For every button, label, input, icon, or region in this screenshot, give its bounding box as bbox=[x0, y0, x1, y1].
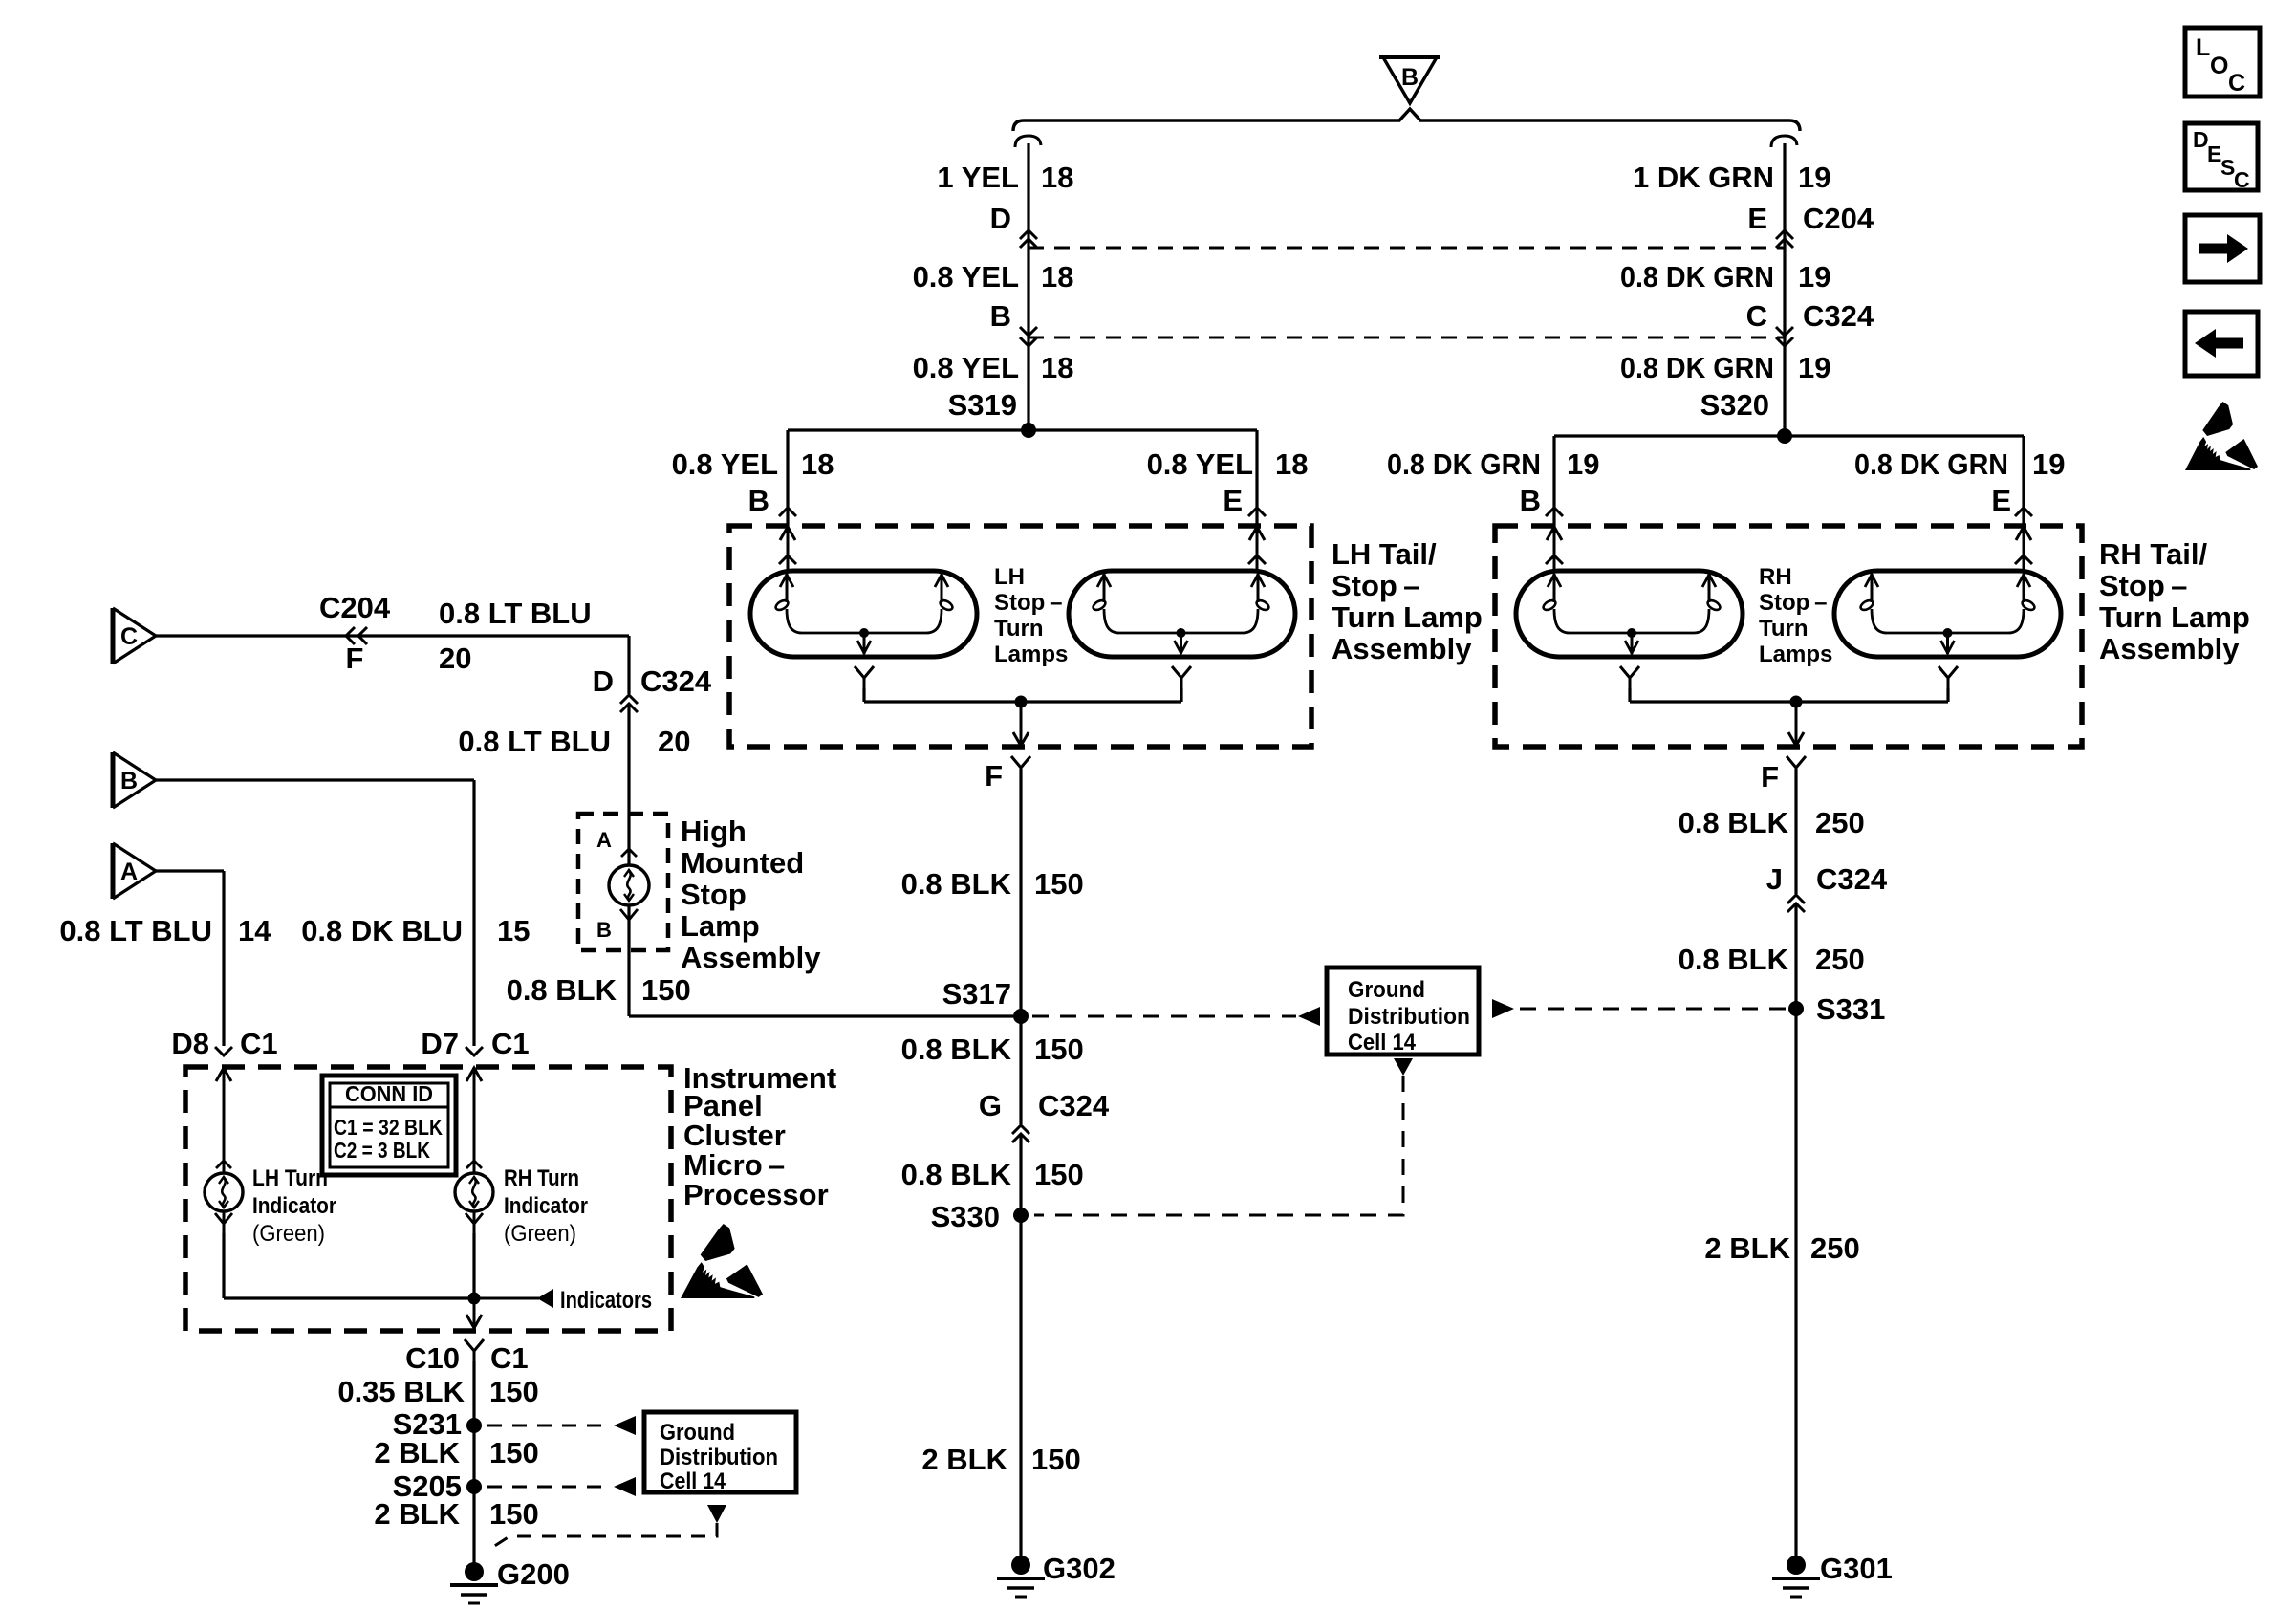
svg-text:150: 150 bbox=[1031, 1443, 1081, 1476]
label 0.8 BLK 150 (F to S317) bbox=[901, 867, 1084, 901]
svg-text:150: 150 bbox=[489, 1375, 539, 1408]
ground G302 bbox=[997, 1556, 1045, 1597]
svg-text:C1: C1 bbox=[240, 1027, 278, 1060]
svg-text:O: O bbox=[2210, 53, 2228, 79]
svg-text:C: C bbox=[1746, 299, 1767, 333]
svg-text:D7: D7 bbox=[421, 1027, 459, 1060]
legend box arrow left bbox=[2185, 312, 2258, 376]
LH tail/stop-turn lamp assembly dashed box bbox=[729, 526, 1311, 747]
junction indicators bus bbox=[468, 1293, 481, 1305]
terminal Y below high-lamp bulb bbox=[620, 909, 638, 930]
connector C324 pin C (right wire) bbox=[1776, 327, 1793, 346]
off-page reference triangle B (feed from turn signal switch) bbox=[1379, 57, 1440, 103]
svg-text:F: F bbox=[346, 642, 364, 675]
label LH Stop-Turn Lamps bbox=[994, 564, 1068, 667]
svg-text:150: 150 bbox=[641, 973, 691, 1007]
svg-text:E: E bbox=[1747, 202, 1767, 235]
svg-text:C1 = 32 BLK: C1 = 32 BLK bbox=[334, 1115, 443, 1140]
label 0.8 BLK 150 (G to S330) bbox=[901, 1158, 1084, 1191]
entry arrow RH pin B bbox=[1546, 526, 1563, 574]
svg-text:S320: S320 bbox=[1700, 388, 1769, 422]
wire branch to RH pin E bbox=[2022, 436, 2025, 528]
lamp LH turn indicator bbox=[205, 1173, 243, 1211]
svg-text:Indicator: Indicator bbox=[504, 1193, 588, 1219]
label splice S231 bbox=[393, 1407, 462, 1441]
wire 1 DK GRN circuit 19 (right feed down to S320) bbox=[1783, 143, 1786, 436]
svg-text:250: 250 bbox=[1815, 806, 1865, 839]
ESD symbol inside instrument panel cluster bbox=[681, 1224, 763, 1298]
svg-text:250: 250 bbox=[1810, 1231, 1860, 1265]
svg-text:E: E bbox=[1991, 484, 2011, 517]
wire 0.8 BLK 150 C324 G to S330 bbox=[1019, 1134, 1022, 1215]
off-page reference triangle A bbox=[113, 843, 156, 899]
svg-text:G302: G302 bbox=[1043, 1552, 1116, 1585]
svg-text:B: B bbox=[748, 484, 769, 517]
label LH pin E bbox=[1223, 484, 1243, 517]
svg-text:19: 19 bbox=[1798, 260, 1830, 294]
svg-text:Cell 14: Cell 14 bbox=[660, 1469, 726, 1494]
label splice S320 bbox=[1700, 388, 1769, 422]
terminal Y below LH lamp1 bbox=[855, 666, 874, 689]
svg-text:2 BLK: 2 BLK bbox=[374, 1436, 460, 1469]
label G302 bbox=[1043, 1552, 1116, 1585]
svg-text:2 BLK: 2 BLK bbox=[374, 1497, 460, 1531]
svg-text:S330: S330 bbox=[931, 1200, 1000, 1233]
svg-text:18: 18 bbox=[1275, 447, 1308, 481]
connector C204 pin F carets (double left chevron) bbox=[346, 627, 367, 644]
svg-text:D: D bbox=[593, 664, 614, 698]
svg-text:(Green): (Green) bbox=[252, 1221, 325, 1247]
terminal caret at LH pin B bbox=[779, 508, 796, 516]
svg-text:0.8 BLK: 0.8 BLK bbox=[901, 1158, 1012, 1191]
wire and arrow to Indicators net bbox=[474, 1289, 553, 1308]
svg-text:150: 150 bbox=[1034, 867, 1084, 901]
lamp RH stop-turn lamp #2 bbox=[1834, 571, 2061, 657]
connector C204 pin E (right wire) bbox=[1776, 230, 1793, 248]
terminal caret at C1 pin D8 bbox=[215, 1047, 232, 1055]
label pin F bbox=[346, 642, 364, 675]
svg-text:0.8 BLK: 0.8 BLK bbox=[901, 867, 1012, 901]
svg-text:C10: C10 bbox=[405, 1341, 460, 1375]
label pin B bbox=[990, 299, 1011, 333]
svg-text:20: 20 bbox=[439, 642, 471, 675]
entry arrow RH pin E bbox=[2015, 526, 2032, 574]
arrowhead at ground distribution (from S231) bbox=[614, 1416, 636, 1435]
ground distribution cell 14 box (lower left) bbox=[644, 1412, 796, 1494]
label 0.8 LT BLU 20 (below C324 D) bbox=[458, 725, 690, 758]
wire LH indicator to indicators bus bbox=[224, 1233, 474, 1298]
svg-text:0.8 YEL: 0.8 YEL bbox=[1147, 447, 1253, 481]
svg-text:Lamp: Lamp bbox=[681, 909, 760, 943]
svg-text:D: D bbox=[990, 202, 1011, 235]
lamp RH stop-turn lamp #1 bbox=[1516, 571, 1743, 657]
label RH pin E bbox=[1991, 484, 2011, 517]
label splice S331 bbox=[1816, 992, 1885, 1026]
svg-text:RH Turn: RH Turn bbox=[504, 1165, 579, 1191]
svg-text:Ground: Ground bbox=[660, 1420, 735, 1446]
svg-text:Turn: Turn bbox=[994, 616, 1044, 642]
svg-text:1 DK GRN: 1 DK GRN bbox=[1633, 161, 1774, 194]
svg-text:150: 150 bbox=[489, 1436, 539, 1469]
terminal Y below RH turn indicator bbox=[466, 1213, 483, 1234]
wire LH ground exit with arrow bbox=[1013, 702, 1029, 746]
wire RH lamp1 to ground bus bbox=[1628, 688, 1631, 702]
svg-text:Turn: Turn bbox=[1759, 616, 1809, 642]
off-page reference triangle C bbox=[113, 608, 156, 664]
label 0.8 YEL 18 (LH pin E branch) bbox=[1147, 447, 1309, 481]
terminal caret above LH turn indicator bbox=[216, 1161, 231, 1168]
terminal Y at LH pin F bbox=[1011, 756, 1030, 779]
dashed reference S231 to ground distribution cell bbox=[487, 1425, 612, 1427]
label pin D / C324 bbox=[593, 664, 712, 698]
brace end hook over left wire bbox=[1015, 136, 1041, 147]
connector C204 interface dashed line bbox=[1029, 247, 1785, 250]
junction RH ground bus bbox=[1790, 696, 1803, 708]
terminal caret above RH turn indicator bbox=[466, 1161, 482, 1168]
wire 2 BLK 150 S231 to S205 bbox=[472, 1425, 475, 1487]
svg-text:C1: C1 bbox=[490, 1341, 529, 1375]
wire LH lamp1 to ground bus bbox=[862, 688, 865, 702]
label 0.35 BLK 150 bbox=[337, 1375, 538, 1408]
svg-text:0.8 BLK: 0.8 BLK bbox=[1679, 806, 1789, 839]
arrowhead at right ground distribution box (right side) bbox=[1492, 999, 1514, 1018]
svg-text:19: 19 bbox=[2032, 447, 2065, 481]
svg-text:CONN ID: CONN ID bbox=[345, 1081, 433, 1106]
label RH pin B bbox=[1520, 484, 1541, 517]
label 0.8 LT BLU (C204 to corner) bbox=[439, 597, 592, 675]
label RH Tail/Stop-Turn Lamp Assembly bbox=[2099, 537, 2250, 665]
terminal caret at RH pin B bbox=[1546, 508, 1563, 516]
svg-text:150: 150 bbox=[489, 1497, 539, 1531]
svg-text:250: 250 bbox=[1815, 943, 1865, 976]
wire S320 branch bus bbox=[1554, 434, 2024, 437]
label splice S205 bbox=[393, 1469, 462, 1503]
svg-text:Panel: Panel bbox=[683, 1089, 763, 1122]
svg-text:Ground: Ground bbox=[1348, 977, 1425, 1003]
instrument panel cluster dashed box bbox=[185, 1067, 671, 1331]
svg-text:2 BLK: 2 BLK bbox=[1704, 1231, 1790, 1265]
svg-text:Stop –: Stop – bbox=[1332, 569, 1419, 602]
label splice S317 bbox=[942, 977, 1011, 1011]
label 0.8 DK BLU 15 bbox=[301, 914, 530, 947]
splice S331 bbox=[1788, 1001, 1804, 1016]
wire RH ground exit with arrow bbox=[1788, 702, 1804, 746]
junction LH ground bus bbox=[1015, 696, 1028, 708]
lamp LH stop-turn lamp #1 bbox=[750, 571, 977, 657]
label high-lamp pin B bbox=[596, 918, 612, 942]
dashed reference S205 to ground distribution cell bbox=[487, 1486, 612, 1489]
svg-text:Lamps: Lamps bbox=[994, 642, 1068, 667]
label 0.8 LT BLU 14 bbox=[59, 914, 271, 947]
svg-text:Turn Lamp: Turn Lamp bbox=[1332, 600, 1483, 634]
ground distribution cell 14 box (right) bbox=[1327, 968, 1479, 1055]
svg-text:Lamps: Lamps bbox=[1759, 642, 1832, 667]
svg-text:19: 19 bbox=[1567, 447, 1599, 481]
wire 0.8 LT BLU 20 vertical to C324 pin D bbox=[627, 636, 630, 694]
label RH pin F bbox=[1761, 760, 1779, 794]
svg-text:B: B bbox=[990, 299, 1011, 333]
off-page reference triangle B (lower left) bbox=[113, 752, 156, 808]
label LH Turn Indicator (Green) bbox=[252, 1165, 336, 1247]
label 0.8 DK GRN 19 (RH pin E branch) bbox=[1854, 447, 2065, 481]
svg-text:S331: S331 bbox=[1816, 992, 1885, 1026]
wire 0.8 BLK 250 from RH pin F to C324 J bbox=[1794, 770, 1797, 894]
wire RH lamp2 to ground bus bbox=[1946, 688, 1949, 702]
brace grouping both feed wires under reference B bbox=[1013, 109, 1800, 131]
terminal caret at C1 pin D7 bbox=[466, 1047, 483, 1055]
svg-text:LH Tail/: LH Tail/ bbox=[1332, 537, 1437, 571]
label 0.8 BLK 150 (S317 to G) bbox=[901, 1033, 1084, 1066]
label pin C / C324 bbox=[1746, 299, 1874, 333]
svg-text:20: 20 bbox=[658, 725, 690, 758]
svg-text:C324: C324 bbox=[1816, 862, 1888, 896]
label 0.8 YEL 18 (lower) bbox=[913, 351, 1074, 384]
splice S231 bbox=[466, 1418, 482, 1433]
svg-text:B: B bbox=[1520, 484, 1541, 517]
high mounted stop lamp dashed box bbox=[578, 814, 668, 950]
lamp RH turn indicator bbox=[455, 1173, 493, 1211]
svg-text:18: 18 bbox=[1041, 351, 1073, 384]
svg-text:S317: S317 bbox=[942, 977, 1011, 1011]
CONN ID table bbox=[322, 1076, 456, 1175]
arrowhead at right ground distribution box (left side) bbox=[1298, 1007, 1320, 1026]
svg-text:Distribution: Distribution bbox=[660, 1445, 778, 1470]
label 2 BLK 150 (to G302) bbox=[921, 1443, 1080, 1476]
svg-text:19: 19 bbox=[1798, 161, 1830, 194]
label G301 bbox=[1820, 1552, 1893, 1585]
label 0.8 DK GRN 19 (lower) bbox=[1620, 351, 1830, 384]
svg-text:B: B bbox=[120, 768, 138, 794]
wire 1 YEL circuit 18 (left feed down to S319) bbox=[1027, 143, 1029, 430]
svg-text:0.8 DK GRN: 0.8 DK GRN bbox=[1620, 351, 1774, 384]
arrowhead below lower ground distribution box bbox=[707, 1505, 726, 1523]
terminal Y below LH lamp2 bbox=[1172, 666, 1191, 689]
connector C204 pin D (left wire, male/female carets) bbox=[1020, 230, 1037, 248]
lamp high mounted stop lamp bulb bbox=[609, 865, 649, 905]
label Instrument Panel Cluster Micro-Processor bbox=[683, 1061, 836, 1211]
dashed reference box to S330 bbox=[1034, 1076, 1403, 1215]
label 0.8 YEL 18 (upper) bbox=[913, 260, 1074, 294]
svg-text:C204: C204 bbox=[1803, 202, 1874, 235]
splice S320 bbox=[1777, 428, 1792, 444]
svg-text:150: 150 bbox=[1034, 1158, 1084, 1191]
wire S319 branch bus bbox=[788, 428, 1257, 431]
entry arrow IP pin D8 bbox=[216, 1067, 231, 1233]
wire branch to LH pin E bbox=[1255, 430, 1258, 528]
svg-text:C324: C324 bbox=[1038, 1089, 1110, 1122]
svg-text:0.8 BLK: 0.8 BLK bbox=[901, 1033, 1012, 1066]
lamp LH stop-turn lamp #2 bbox=[1069, 571, 1295, 657]
label 2 BLK 150 (S205-G200) bbox=[374, 1497, 538, 1531]
svg-text:Assembly: Assembly bbox=[2099, 632, 2240, 665]
label High Mounted Stop Lamp Assembly bbox=[681, 815, 821, 974]
svg-text:Processor: Processor bbox=[683, 1178, 829, 1211]
label G200 bbox=[497, 1557, 570, 1591]
splice S319 bbox=[1021, 423, 1036, 438]
wire RH indicator to indicators bus bbox=[472, 1233, 475, 1298]
label pin D7 / C1 bbox=[421, 1027, 529, 1060]
svg-text:C: C bbox=[2228, 70, 2245, 97]
svg-text:B: B bbox=[596, 918, 612, 942]
svg-text:D8: D8 bbox=[171, 1027, 209, 1060]
svg-text:Stop –: Stop – bbox=[2099, 569, 2187, 602]
wire branch to LH pin B bbox=[786, 430, 789, 528]
wire branch to RH pin B bbox=[1552, 436, 1555, 528]
label 0.8 BLK 250 (F to J) bbox=[1679, 806, 1865, 839]
svg-text:Indicator: Indicator bbox=[252, 1193, 336, 1219]
ground G301 bbox=[1772, 1556, 1820, 1597]
terminal caret above high-lamp bulb bbox=[621, 849, 637, 857]
label pin D8 / C1 bbox=[171, 1027, 277, 1060]
svg-text:S319: S319 bbox=[948, 388, 1017, 422]
ground G200 bbox=[450, 1562, 498, 1603]
svg-text:0.8 YEL: 0.8 YEL bbox=[913, 260, 1019, 294]
svg-text:B: B bbox=[1401, 64, 1419, 91]
svg-text:0.8 DK GRN: 0.8 DK GRN bbox=[1387, 447, 1541, 481]
wire 0.8 BLK 150 from LH pin F to S317 bbox=[1019, 770, 1022, 1016]
wire LH inner ground bus bbox=[864, 700, 1181, 703]
svg-text:E: E bbox=[1223, 484, 1243, 517]
legend box DESC bbox=[2185, 123, 2258, 192]
legend box arrow right bbox=[2185, 215, 2260, 282]
wire 0.8 DK BLU 15 from triangle B bbox=[156, 780, 474, 1046]
svg-text:G: G bbox=[979, 1089, 1002, 1122]
label splice S319 bbox=[948, 388, 1017, 422]
svg-text:F: F bbox=[985, 759, 1003, 793]
wire indicators bus to C1 pin C10 with arrow bbox=[466, 1298, 482, 1329]
svg-text:Mounted: Mounted bbox=[681, 846, 804, 880]
svg-text:RH Tail/: RH Tail/ bbox=[2099, 537, 2207, 571]
svg-text:18: 18 bbox=[1041, 161, 1073, 194]
svg-text:C: C bbox=[120, 623, 138, 650]
dashed reference box to S331 bbox=[1520, 1008, 1787, 1011]
wire 0.8 BLK 250 C324 J to S331 bbox=[1794, 903, 1797, 1009]
svg-text:150: 150 bbox=[1034, 1033, 1084, 1066]
label 2 BLK 150 (S231-S205) bbox=[374, 1436, 538, 1469]
svg-text:A: A bbox=[596, 828, 612, 852]
label C204 (above pin F) bbox=[319, 591, 391, 624]
connector C324 pin J carets bbox=[1787, 895, 1805, 912]
svg-text:18: 18 bbox=[1041, 260, 1073, 294]
brace end hook over right wire bbox=[1771, 136, 1797, 147]
terminal Y at RH pin F bbox=[1787, 756, 1806, 779]
svg-text:RH: RH bbox=[1759, 564, 1792, 590]
terminal caret at RH pin E bbox=[2015, 508, 2032, 516]
svg-text:14: 14 bbox=[238, 914, 271, 947]
svg-text:C2 = 3 BLK: C2 = 3 BLK bbox=[334, 1138, 430, 1163]
label pin D bbox=[990, 202, 1011, 235]
svg-text:0.8 YEL: 0.8 YEL bbox=[913, 351, 1019, 384]
label RH Turn Indicator (Green) bbox=[504, 1165, 588, 1247]
svg-text:0.8 BLK: 0.8 BLK bbox=[507, 973, 617, 1007]
svg-text:18: 18 bbox=[801, 447, 834, 481]
arrowhead below right ground distribution box bbox=[1394, 1058, 1413, 1076]
svg-text:High: High bbox=[681, 815, 747, 848]
wire 0.8 BLK 150 from high-lamp to S317 bbox=[629, 905, 1020, 1016]
terminal Y at C1 pin C10 bbox=[465, 1339, 484, 1362]
svg-text:2 BLK: 2 BLK bbox=[921, 1443, 1007, 1476]
wire LH lamp2 to ground bus bbox=[1180, 688, 1182, 702]
ESD symbol right margin bbox=[2185, 402, 2258, 470]
terminal caret at LH pin E bbox=[1248, 508, 1266, 516]
wire 0.8 BLK 150 S317 to C324 G bbox=[1019, 1016, 1022, 1124]
svg-text:Assembly: Assembly bbox=[1332, 632, 1472, 665]
svg-text:Indicators: Indicators bbox=[560, 1287, 652, 1314]
label 0.8 DK GRN 19 (RH pin B branch) bbox=[1387, 447, 1599, 481]
terminal Y below RH lamp1 bbox=[1620, 666, 1639, 689]
RH tail/stop-turn lamp assembly dashed box bbox=[1495, 526, 2082, 747]
wire 2 BLK 250 S331 to G301 bbox=[1794, 1009, 1797, 1559]
terminal Y below LH turn indicator bbox=[215, 1213, 232, 1234]
svg-text:0.8 LT BLU: 0.8 LT BLU bbox=[59, 914, 212, 947]
wire 2 BLK 150 S205 to G200 bbox=[472, 1487, 475, 1568]
svg-text:LH: LH bbox=[994, 564, 1025, 590]
svg-text:0.8 YEL: 0.8 YEL bbox=[672, 447, 778, 481]
svg-text:G200: G200 bbox=[497, 1557, 570, 1591]
svg-text:19: 19 bbox=[1798, 351, 1830, 384]
wire 0.35 BLK 150 to S231 bbox=[472, 1361, 475, 1425]
splice S205 bbox=[466, 1479, 482, 1494]
svg-text:(Green): (Green) bbox=[504, 1221, 576, 1247]
label 1 YEL 18 bbox=[937, 161, 1073, 194]
connector C324 pin G carets bbox=[1012, 1125, 1029, 1142]
entry arrow IP pin D7 bbox=[466, 1067, 482, 1233]
entry arrow LH pin E bbox=[1248, 526, 1266, 574]
wire RH inner ground bus bbox=[1630, 700, 1948, 703]
label pin J / C324 bbox=[1766, 862, 1888, 896]
svg-text:A: A bbox=[120, 859, 138, 885]
label 0.8 YEL 18 (LH pin B branch) bbox=[672, 447, 834, 481]
wire 0.8 LT BLU 20 horizontal from triangle C bbox=[156, 634, 629, 637]
svg-text:0.8 DK GRN: 0.8 DK GRN bbox=[1620, 260, 1774, 294]
label high-lamp pin A bbox=[596, 828, 612, 852]
connector C324 pin D carets bbox=[620, 695, 638, 712]
entry arrow LH pin B bbox=[779, 526, 796, 574]
svg-text:C324: C324 bbox=[1803, 299, 1874, 333]
svg-text:Assembly: Assembly bbox=[681, 941, 821, 974]
svg-text:LH Turn: LH Turn bbox=[252, 1165, 328, 1191]
connector C324 pin B (left wire) bbox=[1020, 327, 1037, 346]
svg-text:0.8 BLK: 0.8 BLK bbox=[1679, 943, 1789, 976]
svg-text:Micro –: Micro – bbox=[683, 1148, 785, 1182]
svg-text:0.8 LT BLU: 0.8 LT BLU bbox=[439, 597, 592, 630]
label 0.8 BLK 150 (high-lamp ground) bbox=[507, 973, 691, 1007]
svg-text:C: C bbox=[2234, 167, 2250, 192]
splice S330 bbox=[1013, 1207, 1029, 1223]
label 2 BLK 250 (to G301) bbox=[1704, 1231, 1859, 1265]
svg-text:Cell 14: Cell 14 bbox=[1348, 1030, 1417, 1055]
svg-text:L: L bbox=[2196, 34, 2210, 61]
svg-text:C324: C324 bbox=[640, 664, 712, 698]
svg-text:0.35 BLK: 0.35 BLK bbox=[337, 1375, 465, 1408]
svg-text:1 YEL: 1 YEL bbox=[937, 161, 1019, 194]
label pin C10 / C1 bbox=[405, 1341, 529, 1375]
svg-text:0.8 DK BLU: 0.8 DK BLU bbox=[301, 914, 463, 947]
label LH pin B bbox=[748, 484, 769, 517]
svg-text:G301: G301 bbox=[1820, 1552, 1893, 1585]
legend box LOC bbox=[2185, 28, 2260, 97]
svg-text:Distribution: Distribution bbox=[1348, 1004, 1470, 1030]
label RH Stop-Turn Lamps bbox=[1759, 564, 1832, 667]
dashed reference S317 to ground distribution cell bbox=[1032, 1015, 1296, 1018]
svg-text:C204: C204 bbox=[319, 591, 391, 624]
wire 0.8 LT BLU 14 from triangle A bbox=[156, 871, 224, 1046]
svg-text:15: 15 bbox=[497, 914, 530, 947]
wire 2 BLK 150 S330 to G302 bbox=[1019, 1215, 1022, 1559]
label Indicators bbox=[560, 1287, 652, 1314]
svg-text:J: J bbox=[1766, 862, 1783, 896]
svg-text:0.8 DK GRN: 0.8 DK GRN bbox=[1854, 447, 2008, 481]
